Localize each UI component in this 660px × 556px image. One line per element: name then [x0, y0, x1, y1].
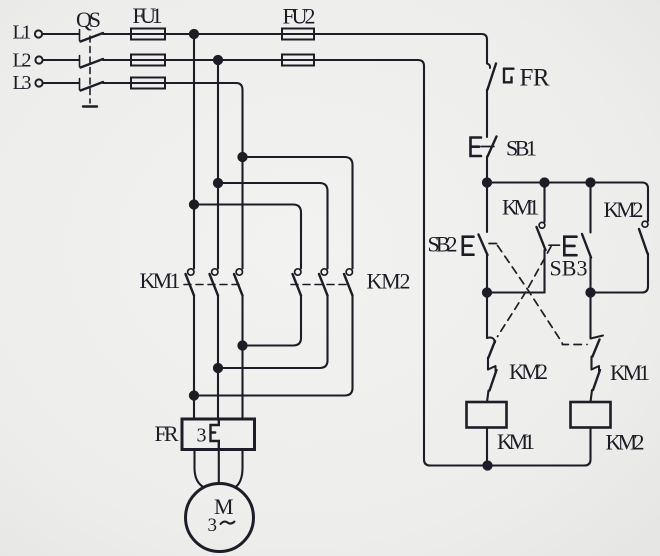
- junction dot bus SB2: [483, 178, 491, 186]
- wire SB3 branch lower: [589, 258, 591, 293]
- wire right leg middle: [590, 357, 592, 370]
- wire FR to motor middle: [218, 450, 220, 484]
- wire left leg middle: [487, 358, 489, 370]
- switch QS linkage: [83, 36, 97, 107]
- svg-text:QS: QS: [76, 7, 101, 32]
- svg-text:3: 3: [208, 515, 218, 536]
- svg-text:FU1: FU1: [133, 3, 163, 28]
- junction dot bus KM1 aux: [540, 178, 548, 186]
- wire L3 rail: [43, 82, 236, 84]
- motor M circle: [186, 484, 254, 552]
- junction dot L1 tap: [190, 30, 198, 38]
- wire SB3 branch upper: [589, 183, 591, 233]
- svg-text:FU2: FU2: [283, 4, 316, 29]
- button SB3 NC interlock contact: [487, 338, 495, 358]
- wire left leg to coil: [487, 391, 489, 403]
- wire FR to motor left: [195, 450, 205, 488]
- wire left leg upper: [486, 293, 488, 339]
- junction dot V to KM2 top: [214, 179, 222, 187]
- node L2 terminal: [35, 56, 42, 63]
- contactor KM1 NC interlock: [592, 366, 601, 390]
- button SB2 NO start forward: [463, 235, 488, 256]
- svg-text:KM1: KM1: [610, 360, 650, 385]
- coil KM1: [467, 402, 507, 428]
- svg-text:SB2: SB2: [428, 232, 458, 257]
- svg-text:KM2: KM2: [606, 430, 645, 455]
- wire L2 rail: [43, 59, 282, 61]
- svg-text:KM1: KM1: [502, 195, 540, 220]
- svg-text:FR: FR: [155, 421, 179, 446]
- thermal relay FR heater box: [182, 419, 255, 450]
- svg-text:L3: L3: [13, 72, 32, 94]
- wire return L2 to bus3: [314, 60, 585, 466]
- wire KM2 branch 2 top: [218, 183, 328, 269]
- wire KM2 branch 3 bottom: [194, 296, 353, 396]
- fuse FU1 pole 1: [131, 29, 165, 40]
- wire KM1 aux branch upper: [543, 183, 545, 223]
- svg-text:FR: FR: [520, 65, 550, 92]
- wire FR to motor right: [235, 450, 243, 488]
- wire L1 rail: [43, 34, 488, 40]
- junction dot W to KM2 top: [238, 153, 246, 161]
- svg-text:L2: L2: [13, 50, 32, 72]
- junction dot U swap: [190, 391, 198, 399]
- mechanical linkage SB3 dashed: [498, 247, 552, 337]
- contactor KM2 main linkage: [291, 284, 350, 286]
- contactor KM1 main contact 1: [186, 269, 195, 296]
- junction dot bus2 right: [586, 288, 594, 296]
- svg-text:3: 3: [197, 425, 207, 447]
- mechanical linkage SB2 dashed: [489, 244, 587, 345]
- svg-text:KM1: KM1: [497, 429, 535, 454]
- wire FR to SB1: [486, 90, 488, 138]
- button SB2 NC interlock contact: [591, 336, 604, 357]
- wire right leg to coil: [591, 390, 593, 402]
- svg-text:L1: L1: [13, 22, 32, 44]
- wire control bus top: [487, 183, 648, 222]
- switch QS pole 1: [80, 30, 104, 42]
- junction dot bus SB3: [586, 178, 594, 186]
- wire KM1 coil to bus3: [486, 428, 488, 466]
- coil KM2: [571, 402, 611, 428]
- wire KM2 branch 1 top: [194, 205, 301, 269]
- wire SB1 to bus: [486, 157, 488, 183]
- wire SB2 branch upper: [486, 183, 488, 233]
- contactor KM2 main contact 1: [293, 269, 302, 296]
- svg-text:KM2: KM2: [604, 197, 644, 222]
- contactor KM2 main contact 3: [344, 269, 353, 296]
- wire control phase top: [486, 40, 488, 64]
- wire KM1 aux branch lower: [543, 250, 545, 293]
- label motor tilde: [221, 522, 235, 525]
- contactor KM2 aux NO contact: [639, 221, 648, 253]
- svg-text:KM2: KM2: [367, 269, 411, 294]
- junction dot V straight: [214, 364, 222, 372]
- wire KM2 branch 2 bottom: [218, 296, 328, 369]
- wire KM2 branch 1 bottom: [243, 296, 302, 346]
- thermal relay FR NC contact: [487, 64, 514, 90]
- svg-text:KM2: KM2: [509, 359, 548, 384]
- button SB3 NO start reverse: [549, 234, 591, 258]
- wire right leg upper: [589, 293, 591, 339]
- fuse FU1 pole 2: [131, 55, 165, 66]
- wire phase V vertical: [217, 60, 219, 419]
- svg-text:KM1: KM1: [140, 268, 181, 293]
- wire KM2 coil to bus3: [585, 428, 591, 466]
- junction dot bus3: [483, 461, 491, 469]
- contactor KM1 main contact 3: [234, 269, 243, 296]
- fuse FU1 pole 3: [131, 78, 165, 89]
- contactor KM2 NC interlock: [488, 366, 497, 391]
- button SB1 NC stop: [471, 137, 497, 157]
- junction dot bus2 left: [483, 288, 491, 296]
- svg-text:SB1: SB1: [506, 136, 537, 161]
- contactor KM1 main contact 2: [210, 269, 219, 296]
- wire bus2 left: [487, 291, 545, 293]
- wire KM2 branch 3 top: [243, 157, 353, 269]
- contactor KM1 aux NO contact: [537, 222, 546, 250]
- fuse FU2 pole 2: [282, 55, 314, 66]
- switch QS pole 2: [80, 56, 104, 68]
- junction dot W swap: [238, 341, 246, 349]
- wire phase W vertical: [236, 83, 243, 419]
- contactor KM2 main contact 2: [319, 269, 328, 296]
- contactor KM1 main linkage: [184, 284, 240, 286]
- junction dot L2 tap: [214, 56, 222, 64]
- junction dot U to KM2 top: [190, 200, 198, 208]
- fuse FU2 pole 1: [282, 29, 314, 40]
- wire phase U vertical: [193, 34, 195, 419]
- wire SB2 branch lower: [486, 255, 488, 293]
- node L1 terminal: [35, 30, 42, 37]
- wire KM2 aux branch lower: [591, 254, 649, 293]
- svg-text:SB3: SB3: [550, 256, 588, 281]
- switch QS pole 3: [80, 79, 104, 91]
- node L3 terminal: [35, 79, 42, 86]
